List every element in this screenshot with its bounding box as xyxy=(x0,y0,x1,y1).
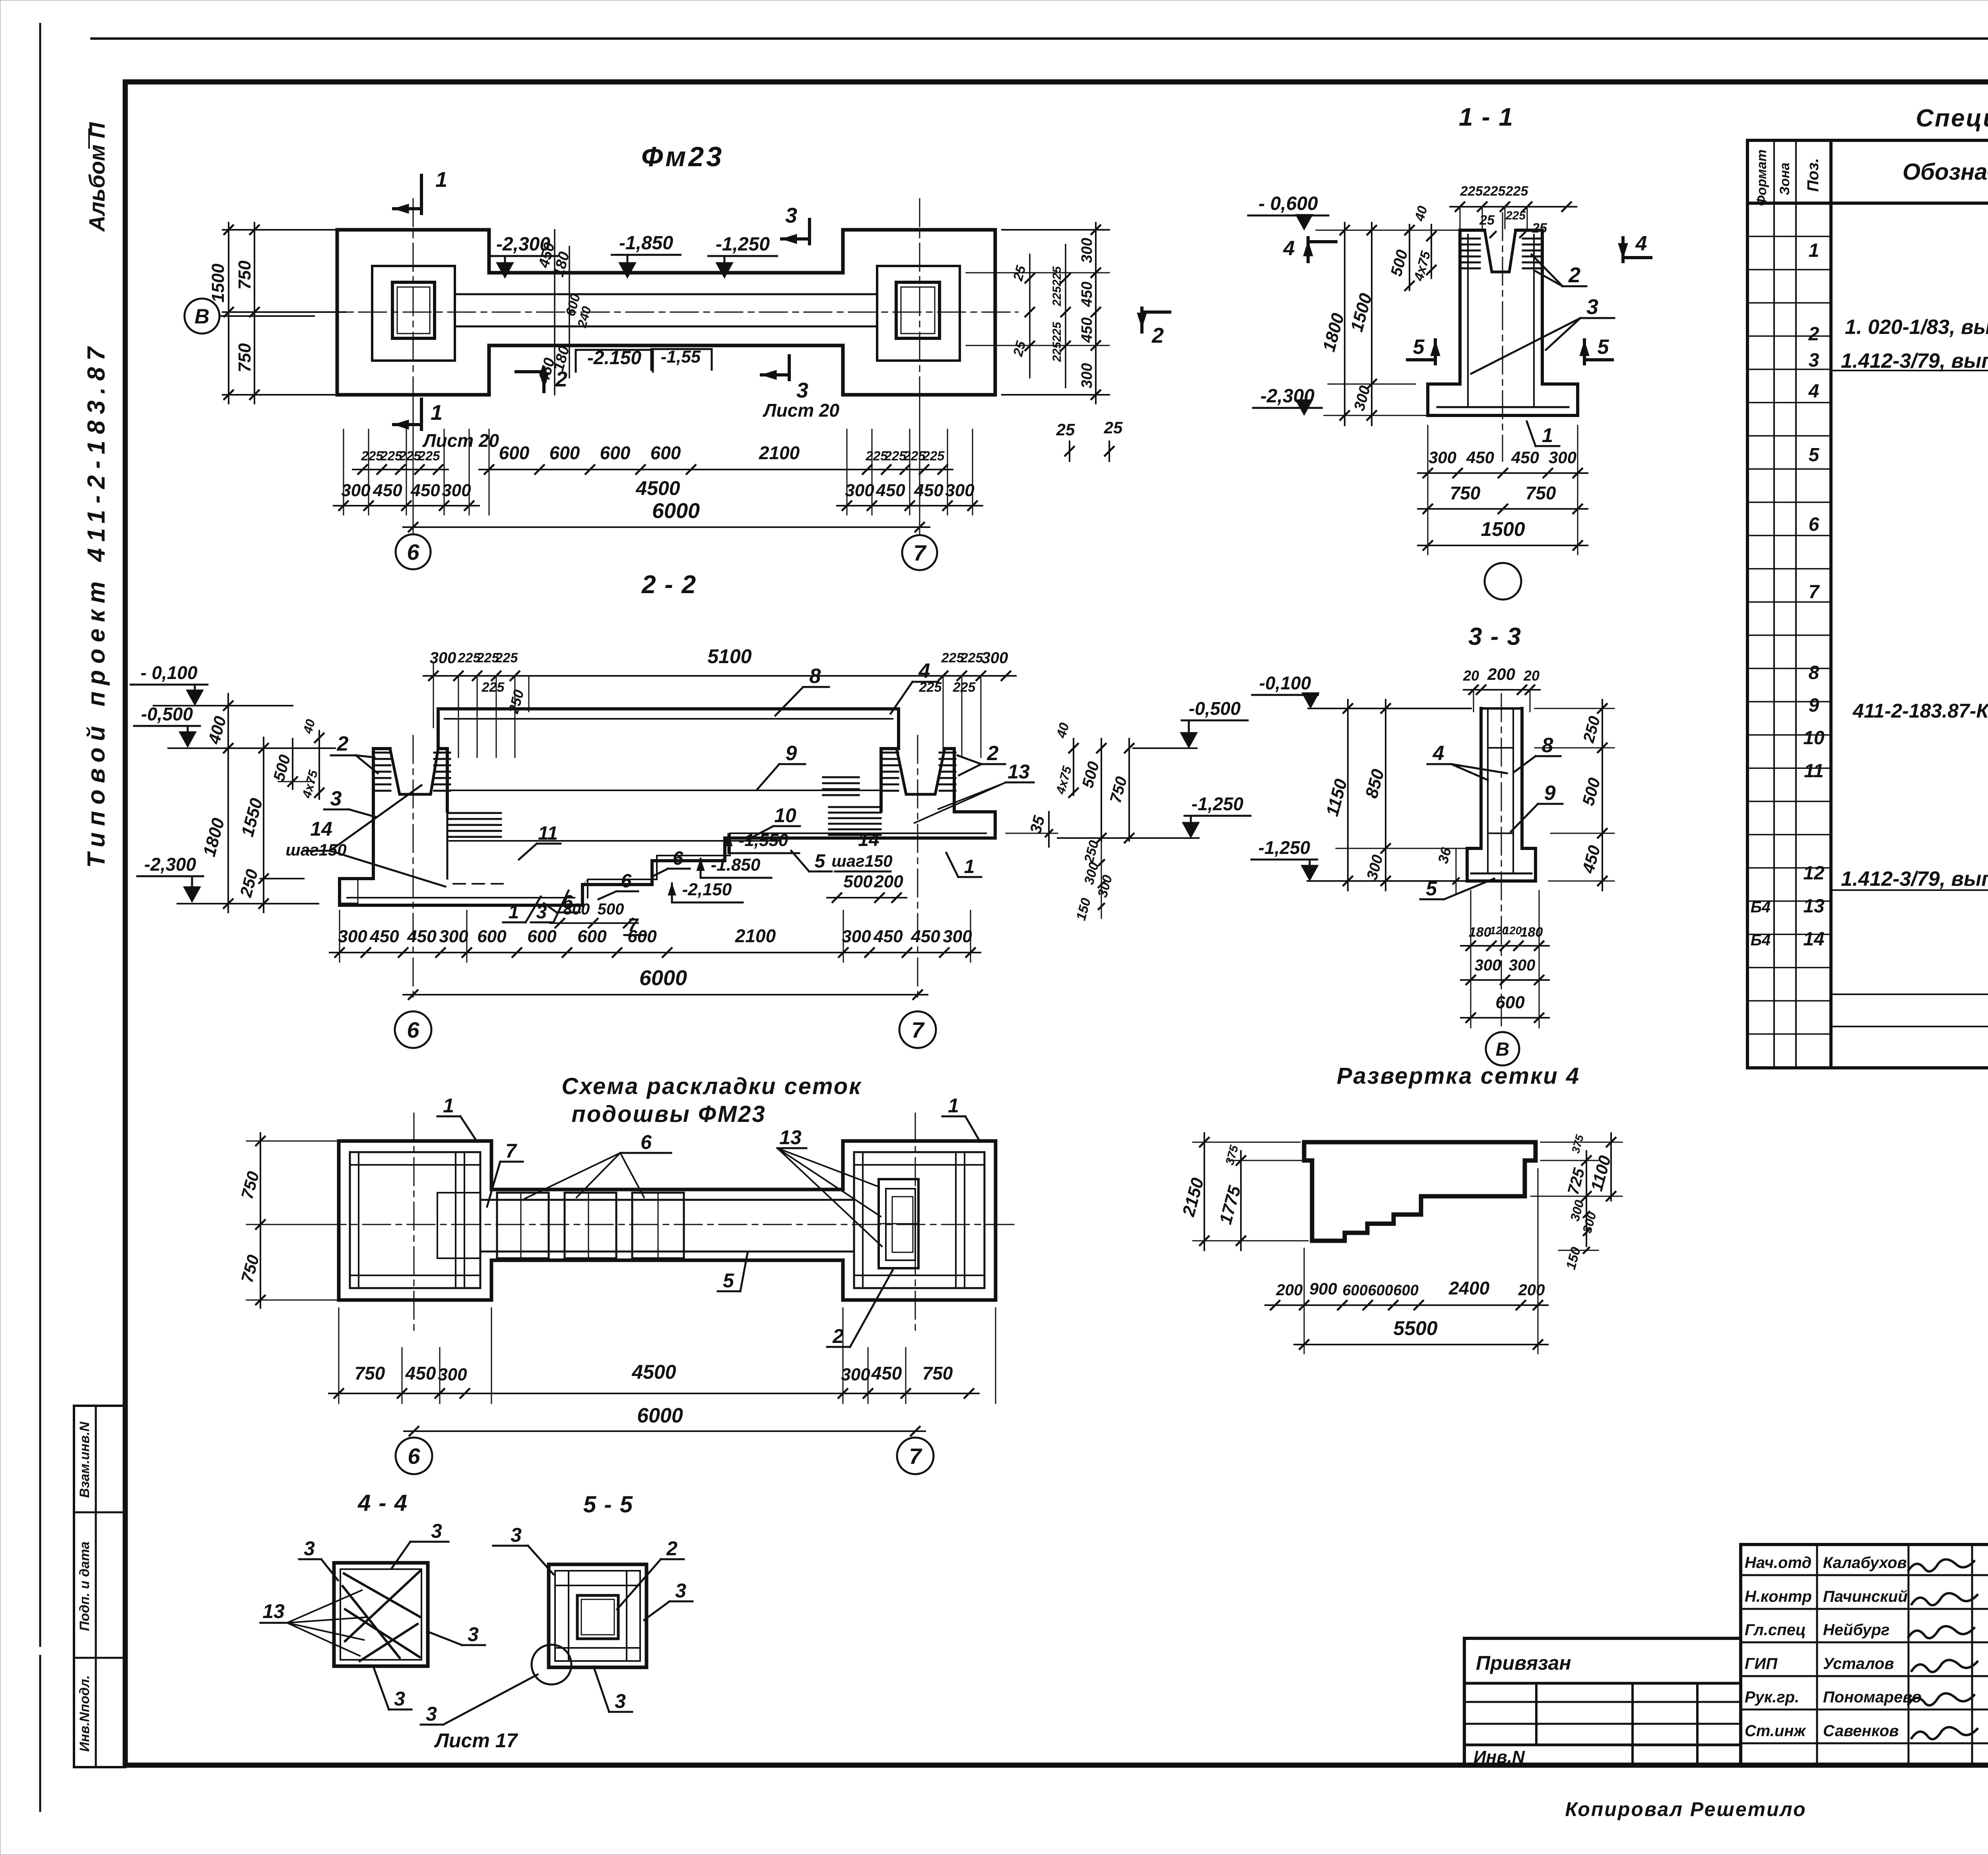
svg-text:13: 13 xyxy=(1803,896,1825,917)
scheme label 1 right xyxy=(942,1094,980,1142)
svg-text:25: 25 xyxy=(1532,221,1547,236)
svg-text:3: 3 xyxy=(536,902,547,923)
svg-text:500: 500 xyxy=(843,872,873,891)
scheme right pad nested squares xyxy=(879,1179,918,1268)
section 2-2 right pocket xyxy=(897,749,945,794)
plan cut mark 2 right xyxy=(1137,308,1170,347)
privyazan table (left of title block) xyxy=(1464,1638,1741,1767)
svg-text:450: 450 xyxy=(871,1363,902,1383)
section 2-2 right mesh bars xyxy=(829,806,881,808)
svg-text:2: 2 xyxy=(1151,324,1164,347)
svg-text:225: 225 xyxy=(1505,184,1529,199)
svg-text:6000: 6000 xyxy=(639,966,687,990)
specification table header texts xyxy=(1754,149,1988,206)
plan right rotated dim cluster 25/225 xyxy=(1010,244,1070,388)
svg-text:300: 300 xyxy=(845,481,874,500)
svg-text:225: 225 xyxy=(495,650,518,666)
svg-text:Альбом П: Альбом П xyxy=(84,122,109,232)
svg-text:750: 750 xyxy=(235,343,254,373)
svg-text:В: В xyxy=(194,305,210,328)
section 2-2 beam line 10 xyxy=(449,840,779,842)
plan cut mark 3 top xyxy=(808,219,811,244)
section 3-3 column outline xyxy=(1481,708,1522,848)
svg-text:600: 600 xyxy=(549,442,580,463)
scheme centre axes xyxy=(318,1224,1018,1225)
section 3-3 labels 4 8 9 5 xyxy=(1420,734,1563,900)
section 2-2 labels 2 3 14 left xyxy=(285,732,445,887)
svg-text:Привязан: Привязан xyxy=(1476,1652,1571,1674)
svg-text:600: 600 xyxy=(1368,1282,1393,1299)
svg-text:225225: 225225 xyxy=(1050,266,1064,307)
svg-text:200: 200 xyxy=(874,872,903,891)
svg-text:300: 300 xyxy=(841,1365,870,1384)
svg-text:450: 450 xyxy=(407,927,437,946)
svg-text:300: 300 xyxy=(982,649,1008,667)
scheme label 5 xyxy=(718,1253,747,1292)
svg-text:180: 180 xyxy=(1469,925,1491,940)
svg-text:2: 2 xyxy=(666,1537,678,1560)
svg-text:5: 5 xyxy=(1413,336,1425,359)
section 3-3 top dims 20/200/20 xyxy=(1463,665,1540,712)
svg-text:Ст.инж: Ст.инж xyxy=(1745,1722,1807,1740)
section 2-2 left column block xyxy=(373,749,447,879)
svg-text:3: 3 xyxy=(1586,295,1598,319)
section 2-2 left pocket xyxy=(390,749,438,794)
svg-text:300: 300 xyxy=(439,927,468,946)
svg-text:1500: 1500 xyxy=(208,264,228,303)
svg-text:750: 750 xyxy=(922,1363,953,1383)
svg-text:12: 12 xyxy=(1803,863,1825,884)
svg-text:шаг150: шаг150 xyxy=(285,840,346,859)
plan cut mark 1 top xyxy=(420,175,423,213)
development dim 5500 xyxy=(1294,1317,1548,1349)
svg-text:6: 6 xyxy=(407,1017,419,1042)
scheme beam mesh rectangles xyxy=(497,1193,684,1258)
signature table xyxy=(1741,1545,1988,1766)
section 4-4 diagonals xyxy=(343,1571,421,1661)
section 3-3 bottom dims xyxy=(1461,891,1549,1028)
svg-text:Н.контр: Н.контр xyxy=(1745,1588,1812,1605)
svg-text:300: 300 xyxy=(842,927,871,946)
svg-text:300: 300 xyxy=(442,481,471,500)
svg-text:Фм23: Фм23 xyxy=(641,141,724,172)
scheme axis circle 7 xyxy=(897,1438,934,1474)
svg-text:Поз.: Поз. xyxy=(1804,158,1822,192)
svg-text:-2,300: -2,300 xyxy=(144,854,196,875)
svg-text:3: 3 xyxy=(330,787,342,810)
specification table grid xyxy=(1747,140,1988,1068)
svg-text:3: 3 xyxy=(675,1579,686,1602)
svg-text:750: 750 xyxy=(235,260,254,290)
svg-text:3: 3 xyxy=(304,1537,315,1560)
svg-text:25: 25 xyxy=(1104,418,1123,437)
svg-text:6: 6 xyxy=(408,1444,420,1469)
svg-text:шаг150: шаг150 xyxy=(831,852,892,870)
svg-text:300: 300 xyxy=(1429,448,1456,467)
plan axis circle 6 xyxy=(396,534,431,569)
section 2-2 dashed mesh box in slab xyxy=(340,879,358,903)
section 1-1 anchor pocket xyxy=(1485,230,1516,272)
svg-text:450: 450 xyxy=(1466,448,1494,467)
svg-text:Пачинский: Пачинский xyxy=(1823,1588,1908,1605)
svg-text:3 - 3: 3 - 3 xyxy=(1468,623,1522,650)
section 3-3 right dims xyxy=(1535,700,1614,891)
section 4-4 labels 3 xyxy=(299,1520,485,1710)
svg-text:1: 1 xyxy=(1542,424,1553,446)
section 2-2 top step corners xyxy=(438,709,899,749)
section 2-2 dims 800/500 small xyxy=(550,900,646,935)
svg-text:2: 2 xyxy=(987,742,999,765)
development profile (stepped plate) xyxy=(1304,1142,1536,1241)
svg-text:Инв.N: Инв.N xyxy=(1474,1747,1525,1767)
scheme label 6 with fan xyxy=(525,1131,671,1199)
svg-text:450: 450 xyxy=(373,481,402,500)
scheme dim 6000 xyxy=(404,1404,925,1436)
section 1-1 base slab xyxy=(1428,384,1578,415)
development right dims xyxy=(1531,1133,1622,1271)
svg-text:2100: 2100 xyxy=(735,926,776,946)
section 1-1 label 3 with leaders xyxy=(1471,295,1614,374)
svg-text:5500: 5500 xyxy=(1393,1317,1437,1339)
section 2-2 bottom dim chain xyxy=(330,910,980,962)
svg-text:4: 4 xyxy=(918,660,930,683)
section 5-5 labels xyxy=(421,1524,693,1752)
svg-text:450: 450 xyxy=(1079,317,1095,343)
svg-text:7: 7 xyxy=(911,1017,925,1042)
section 2-2 dim 6000 xyxy=(403,966,928,999)
svg-text:600: 600 xyxy=(1342,1282,1367,1299)
left margin vertical captions xyxy=(83,122,110,868)
svg-text:900: 900 xyxy=(1309,1279,1337,1298)
section 2-2 left dim verticals xyxy=(200,694,324,912)
svg-text:Обозначение: Обозначение xyxy=(1903,159,1988,185)
svg-text:2: 2 xyxy=(1568,263,1580,287)
svg-text:10: 10 xyxy=(1803,728,1825,749)
svg-text:600: 600 xyxy=(1393,1282,1418,1299)
svg-text:600: 600 xyxy=(527,927,557,946)
scheme axis circle 6 xyxy=(396,1438,432,1474)
svg-text:450: 450 xyxy=(911,927,940,946)
svg-text:8: 8 xyxy=(1809,662,1819,683)
scheme beam lines xyxy=(480,1199,854,1201)
section 2-2 centre axes xyxy=(413,735,414,1002)
svg-text:-1,250: -1,250 xyxy=(1258,837,1310,858)
section 2-2 axis circle 6 xyxy=(395,1011,431,1048)
svg-text:225: 225 xyxy=(953,680,976,695)
svg-text:1.412-3/79, вып.3: 1.412-3/79, вып.3 xyxy=(1841,867,1988,891)
section 2-2 beam mid line 9 xyxy=(449,790,879,791)
svg-text:Усталов: Усталов xyxy=(1823,1655,1894,1673)
svg-text:-1,250: -1,250 xyxy=(1192,794,1244,814)
svg-text:Нач.отд: Нач.отд xyxy=(1745,1554,1811,1572)
svg-text:ГИП: ГИП xyxy=(1745,1655,1778,1673)
section 5-5 inner core square xyxy=(555,1571,640,1661)
svg-text:-1,550: -1,550 xyxy=(739,830,788,850)
svg-text:9: 9 xyxy=(1544,782,1556,805)
plan cut mark 3 bottom xyxy=(788,356,791,380)
section 1-1 comb hatch left xyxy=(1462,238,1480,240)
svg-text:25: 25 xyxy=(1056,420,1075,439)
svg-text:3: 3 xyxy=(426,1703,437,1725)
svg-text:3: 3 xyxy=(785,204,797,227)
svg-text:600: 600 xyxy=(627,927,657,946)
svg-text:Б4: Б4 xyxy=(1751,931,1771,949)
section 5-5 square xyxy=(549,1564,646,1667)
svg-text:8: 8 xyxy=(810,665,821,688)
svg-text:2: 2 xyxy=(337,732,349,755)
svg-text:подошвы ФМ23: подошвы ФМ23 xyxy=(571,1101,766,1127)
section 1-1 label 2 with leaders xyxy=(1532,254,1586,287)
svg-text:300: 300 xyxy=(1079,238,1095,263)
svg-text:1: 1 xyxy=(948,1094,959,1117)
scheme left pad mesh square xyxy=(350,1152,480,1288)
svg-text:Подп. и дата: Подп. и дата xyxy=(77,1541,92,1631)
section 3-3 centre axis xyxy=(1501,694,1502,1026)
svg-text:Типовой проект 411-2-183.87: Типовой проект 411-2-183.87 xyxy=(83,341,110,868)
section 5-5 lens circle xyxy=(532,1645,571,1684)
section 1-1 axis circle (blank) xyxy=(1485,563,1521,600)
svg-text:750: 750 xyxy=(355,1363,385,1383)
svg-text:Спецификация на фундамент: Спецификация на фундамент ФМ23 xyxy=(1916,105,1988,132)
scheme left vertical dims xyxy=(237,1133,346,1308)
plan right pad inner square xyxy=(877,266,960,361)
svg-text:7: 7 xyxy=(1809,582,1820,603)
svg-text:Савенков: Савенков xyxy=(1823,1722,1899,1740)
svg-text:14: 14 xyxy=(1803,929,1824,950)
svg-text:-0,100: -0,100 xyxy=(1259,673,1311,693)
svg-text:450: 450 xyxy=(405,1363,436,1383)
svg-text:450: 450 xyxy=(876,481,905,500)
svg-text:1500: 1500 xyxy=(1481,518,1525,540)
svg-text:11: 11 xyxy=(538,823,558,844)
svg-text:5: 5 xyxy=(1809,444,1820,466)
svg-text:9: 9 xyxy=(786,742,797,765)
svg-text:Развертка сетки 4: Развертка сетки 4 xyxy=(1337,1063,1580,1089)
svg-text:300: 300 xyxy=(1509,957,1536,974)
scheme outline (dumbbell) xyxy=(339,1141,996,1300)
plan leader 25 marks top right pad xyxy=(1056,418,1123,461)
section 2-2 right dim verticals xyxy=(1053,721,1134,922)
svg-text:1 - 1: 1 - 1 xyxy=(1459,103,1514,131)
svg-text:-0,500: -0,500 xyxy=(141,704,193,724)
svg-text:7: 7 xyxy=(913,540,927,565)
svg-text:14: 14 xyxy=(858,829,879,850)
svg-text:Калабухов: Калабухов xyxy=(1823,1554,1907,1572)
svg-text:300: 300 xyxy=(945,481,975,500)
svg-text:Лист 17: Лист 17 xyxy=(434,1729,518,1752)
section 2-2 step level flags xyxy=(668,830,799,902)
svg-text:2: 2 xyxy=(1808,324,1819,345)
scheme label 2 xyxy=(827,1270,893,1347)
svg-text:20: 20 xyxy=(1523,667,1540,684)
svg-text:450: 450 xyxy=(914,481,944,500)
development left dims xyxy=(1178,1133,1308,1250)
svg-text:В: В xyxy=(1496,1039,1510,1060)
section 1-1 cut 4 left xyxy=(1283,237,1336,262)
section 3-3 left dims xyxy=(1322,700,1471,895)
scheme label 13 with fan xyxy=(777,1126,882,1246)
svg-text:Лист 20: Лист 20 xyxy=(763,400,840,421)
svg-text:300: 300 xyxy=(1549,448,1576,467)
svg-text:300: 300 xyxy=(1079,363,1095,388)
svg-text:Зона: Зона xyxy=(1777,163,1792,195)
svg-text:-2,150: -2,150 xyxy=(682,880,732,899)
section 1-1 mesh verticals xyxy=(1467,235,1469,407)
svg-text:Взам.инв.N: Взам.инв.N xyxy=(77,1421,92,1498)
svg-text:1: 1 xyxy=(431,401,443,425)
svg-text:6: 6 xyxy=(673,848,683,869)
svg-text:1: 1 xyxy=(443,1094,454,1117)
section 2-2 labels 6 steps xyxy=(544,848,690,913)
svg-text:500: 500 xyxy=(598,900,624,918)
svg-text:Гл.спец: Гл.спец xyxy=(1745,1621,1806,1639)
plan cut mark 2 left xyxy=(516,367,567,392)
svg-text:2 - 2: 2 - 2 xyxy=(641,570,697,599)
section 3-3 mesh verticals xyxy=(1487,708,1489,873)
svg-text:750: 750 xyxy=(1526,483,1556,503)
svg-text:4 - 4: 4 - 4 xyxy=(357,1490,408,1516)
svg-text:800: 800 xyxy=(563,900,590,918)
svg-text:3: 3 xyxy=(511,1524,522,1546)
plan beam edges xyxy=(455,293,877,295)
svg-text:9: 9 xyxy=(1809,695,1819,716)
svg-text:6: 6 xyxy=(407,539,419,565)
svg-text:225: 225 xyxy=(922,448,945,463)
section 2-2 right column block xyxy=(881,749,954,812)
plan centre axes dash-dot xyxy=(314,312,1018,313)
svg-text:20: 20 xyxy=(1463,667,1479,684)
svg-text:4500: 4500 xyxy=(631,1361,676,1383)
svg-text:600: 600 xyxy=(577,927,607,946)
svg-text:-1,850: -1,850 xyxy=(619,233,673,254)
plan cut mark 1 bottom xyxy=(420,399,423,429)
specification rows: position numbers xyxy=(1751,240,1825,950)
section 1-1 label 1 leader xyxy=(1527,421,1559,446)
plan level -2.150 flag xyxy=(576,347,653,372)
svg-text:2100: 2100 xyxy=(759,442,800,463)
plan right column section xyxy=(896,282,940,338)
svg-text:Б4: Б4 xyxy=(1751,898,1771,916)
svg-text:6: 6 xyxy=(621,871,632,892)
plan left column section xyxy=(392,282,435,338)
section 2-2 labels 1 3 bottom left xyxy=(503,891,569,923)
svg-text:1: 1 xyxy=(435,168,447,192)
svg-text:411-2-183.87-КЖИ24.000: 411-2-183.87-КЖИ24.000 xyxy=(1852,700,1988,722)
section 3-3 base xyxy=(1467,848,1536,881)
section 2-2 bottom slab and steps xyxy=(340,812,995,905)
svg-text:Копировал Решетило: Копировал Решетило xyxy=(1565,1798,1806,1820)
svg-text:1.412-3/79, вып.3: 1.412-3/79, вып.3 xyxy=(1841,349,1988,373)
svg-text:4: 4 xyxy=(1433,742,1444,765)
svg-text:225: 225 xyxy=(960,650,984,666)
svg-text:-0,500: -0,500 xyxy=(1189,698,1241,719)
svg-text:225: 225 xyxy=(1460,184,1483,199)
plan bottom dim 6000 xyxy=(403,499,930,532)
plan left vertical dimensions 750/750/1500 xyxy=(208,223,346,404)
svg-text:3: 3 xyxy=(796,378,808,402)
svg-text:7: 7 xyxy=(909,1444,922,1469)
section 1-1 bottom dims xyxy=(1418,425,1588,555)
svg-text:25: 25 xyxy=(1479,213,1495,228)
plan mid rotated dims 450/180 xyxy=(536,230,594,395)
section 1-1 column outline xyxy=(1460,230,1542,384)
svg-text:1: 1 xyxy=(1809,240,1819,261)
section 2-2 left combs xyxy=(375,752,390,754)
svg-text:6000: 6000 xyxy=(652,499,700,523)
section 2-2 left inner mesh vertical xyxy=(447,811,448,879)
development bottom dim chain xyxy=(1265,1169,1548,1354)
plan bottom dim chain row A (225 clusters and 600s) xyxy=(353,442,953,474)
svg-text:Инв.Nподл.: Инв.Nподл. xyxy=(77,1675,92,1752)
svg-text:600: 600 xyxy=(477,927,507,946)
svg-text:2400: 2400 xyxy=(1448,1278,1490,1298)
svg-text:120: 120 xyxy=(1503,924,1522,937)
svg-text:450: 450 xyxy=(1511,448,1539,467)
svg-text:Формат: Формат xyxy=(1754,149,1769,206)
scheme bottom dim chain xyxy=(329,1308,996,1403)
svg-text:Схема раскладки сеток: Схема раскладки сеток xyxy=(561,1073,862,1099)
svg-text:450: 450 xyxy=(369,927,399,946)
svg-text:Лист 20: Лист 20 xyxy=(422,430,499,451)
svg-text:200: 200 xyxy=(1276,1281,1303,1299)
svg-text:5: 5 xyxy=(815,851,826,872)
svg-text:-1.850: -1.850 xyxy=(711,855,761,875)
svg-text:450: 450 xyxy=(1079,281,1095,307)
svg-text:13: 13 xyxy=(262,1600,285,1622)
svg-text:1: 1 xyxy=(964,856,975,877)
svg-text:5: 5 xyxy=(1598,336,1609,359)
svg-text:600: 600 xyxy=(600,442,631,463)
svg-text:5: 5 xyxy=(723,1269,734,1292)
svg-text:3: 3 xyxy=(1809,350,1819,371)
svg-text:- 0,600: - 0,600 xyxy=(1258,193,1318,214)
section 2-2 axis circle 7 xyxy=(899,1011,936,1048)
svg-text:300: 300 xyxy=(341,481,371,500)
section 1-1 comb hatch right xyxy=(1523,238,1541,240)
svg-text:7: 7 xyxy=(505,1140,517,1162)
svg-text:Рук.гр.: Рук.гр. xyxy=(1745,1688,1799,1706)
svg-text:1: 1 xyxy=(509,902,519,923)
svg-text:225: 225 xyxy=(417,448,440,463)
plan level -1,55 flag xyxy=(651,347,712,370)
section 1-1 left vertical dims xyxy=(1316,204,1463,425)
section 3-3 axis circle B xyxy=(1486,1032,1519,1065)
svg-text:11: 11 xyxy=(1804,761,1824,782)
svg-text:6000: 6000 xyxy=(637,1404,683,1427)
svg-text:600: 600 xyxy=(650,442,681,463)
svg-text:-1,250: -1,250 xyxy=(716,234,770,255)
scheme label 7 xyxy=(487,1140,523,1207)
section 1-1 centre axis xyxy=(1502,213,1503,461)
svg-text:13: 13 xyxy=(779,1126,802,1149)
section 1-1 cut 5 left xyxy=(1408,336,1440,364)
svg-text:3: 3 xyxy=(468,1623,479,1645)
svg-text:3: 3 xyxy=(615,1690,626,1712)
svg-text:200: 200 xyxy=(1487,665,1515,683)
svg-text:13: 13 xyxy=(1008,761,1030,783)
svg-text:225: 225 xyxy=(1483,184,1506,199)
section 2-2 dims 500/200 right xyxy=(827,872,907,902)
svg-text:225: 225 xyxy=(481,680,505,695)
section 2-2 label 1 right end xyxy=(946,853,981,877)
svg-text:6: 6 xyxy=(641,1131,652,1153)
svg-text:Пономарево: Пономарево xyxy=(1823,1688,1922,1706)
svg-text:450: 450 xyxy=(410,481,440,500)
scheme right pad mesh square xyxy=(854,1152,984,1288)
svg-text:4: 4 xyxy=(1635,232,1647,255)
section 2-2 beam top lines xyxy=(438,707,899,710)
svg-text:300: 300 xyxy=(338,927,367,946)
